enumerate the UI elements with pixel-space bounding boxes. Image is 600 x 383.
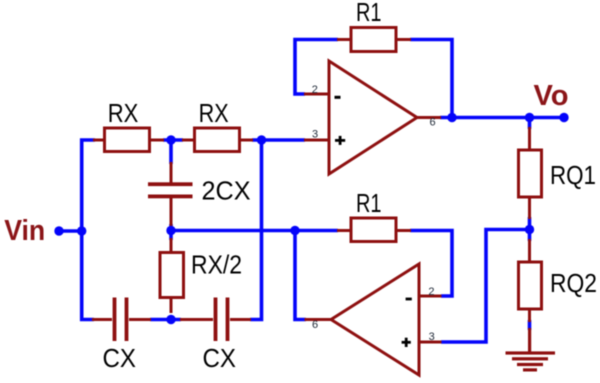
svg-text:3: 3 bbox=[429, 331, 435, 343]
svg-text:3: 3 bbox=[312, 129, 318, 141]
wire RQ1 top lead bbox=[528, 118, 532, 130]
capacitor 2CX leads bbox=[170, 162, 173, 226]
resistor RQ2 leads bbox=[528, 239, 531, 322]
svg-text:CX: CX bbox=[103, 343, 137, 373]
node RX2 output junction bbox=[257, 135, 266, 144]
op-amp U1 plus sign bbox=[335, 136, 345, 145]
op-amp U1 pin 2 stub bbox=[304, 93, 329, 96]
capacitor CX2 leads bbox=[180, 318, 251, 321]
capacitor CX2 bbox=[214, 298, 230, 342]
capacitor 2CX bbox=[148, 182, 193, 198]
svg-text:RX: RX bbox=[108, 98, 139, 128]
wire output row to Vo bbox=[440, 116, 564, 120]
capacitor CX1 bbox=[113, 298, 129, 342]
wire 2CX to RX/2 node bbox=[169, 224, 173, 240]
resistor RQ1 label bbox=[550, 160, 596, 190]
resistor RX1 label bbox=[108, 98, 139, 128]
op-amp U2 pin 3 number bbox=[429, 331, 435, 343]
node Vo junction bbox=[525, 113, 534, 122]
resistor R1 top label bbox=[356, 0, 382, 27]
resistor R1 bottom bbox=[351, 218, 396, 242]
op-amp U1 pin 3 number bbox=[312, 129, 318, 141]
capacitor CX1 label bbox=[103, 343, 137, 373]
resistor R1 bottom leads bbox=[337, 229, 411, 232]
resistor RQ2 bbox=[519, 262, 542, 309]
svg-text:2CX: 2CX bbox=[202, 176, 251, 206]
svg-text:2: 2 bbox=[428, 286, 434, 298]
svg-text:6: 6 bbox=[312, 319, 318, 331]
node RX1-RX2 junction bbox=[166, 135, 175, 144]
op-amp U2 bbox=[331, 264, 419, 375]
svg-text:RQ1: RQ1 bbox=[550, 160, 596, 190]
resistor RX2 label bbox=[199, 98, 229, 128]
wire RQ1-RQ2 junction bbox=[528, 217, 532, 241]
op-amp U1 pin 6 number bbox=[430, 117, 436, 129]
svg-text:R1: R1 bbox=[356, 188, 382, 218]
op-amp U2 pin 3 stub bbox=[419, 341, 442, 344]
resistor RX2 bbox=[195, 128, 240, 152]
node RQ1-RQ2 junction bbox=[525, 225, 534, 234]
svg-text:Vo: Vo bbox=[534, 80, 569, 112]
op-amp U1 minus sign bbox=[335, 96, 341, 99]
op-amp U2 pin 6 number bbox=[312, 319, 318, 331]
resistor RX1 bbox=[105, 128, 150, 152]
wire between RX1 and RX2 bbox=[163, 138, 183, 142]
resistor RX2 leads bbox=[182, 139, 253, 142]
wire RX2 to op-amp pin3 bbox=[252, 138, 305, 142]
wire node to U2 output bbox=[295, 231, 306, 320]
svg-text:RQ2: RQ2 bbox=[550, 268, 597, 298]
resistor RQ2 label bbox=[550, 268, 597, 298]
resistor R1 top bbox=[351, 28, 396, 52]
capacitor 2CX label bbox=[202, 176, 251, 206]
op-amp U2 pin 6 stub bbox=[305, 318, 333, 321]
node Vin junction bbox=[77, 226, 86, 235]
svg-text:6: 6 bbox=[430, 117, 436, 129]
wire left vertical from RX to CX row bbox=[82, 140, 95, 320]
wire right vertical of twin-T bbox=[250, 140, 262, 320]
wire RQ2 to ground segment bbox=[528, 320, 532, 330]
wire U1 feedback right down to output bbox=[410, 40, 452, 118]
wire RQ junction to U2 pin3 bbox=[441, 230, 530, 343]
op-amp U2 pin 2 number bbox=[428, 286, 434, 298]
svg-text:RX: RX bbox=[199, 98, 229, 128]
wire CX row segments bbox=[150, 318, 181, 322]
svg-text:R1: R1 bbox=[356, 0, 382, 27]
op-amp U1 pin 6 stub bbox=[416, 116, 441, 119]
svg-text:CX: CX bbox=[203, 343, 237, 373]
wire U1 pin2 feedback loop left bbox=[295, 40, 338, 95]
op-amp U2 minus sign bbox=[406, 298, 412, 301]
op-amp U2 pin 2 stub bbox=[419, 295, 442, 298]
wire node to 2CX bbox=[169, 140, 173, 164]
op-amp U1 pin 3 stub bbox=[304, 139, 329, 142]
wire U2 feedback right loop bbox=[410, 231, 452, 297]
resistor RQ1 leads bbox=[528, 127, 531, 219]
ground bbox=[506, 328, 556, 372]
node RX/2-CX junction bbox=[166, 315, 175, 324]
label Vin bbox=[4, 215, 45, 247]
node Vo endpoint bbox=[559, 113, 568, 122]
svg-text:RX/2: RX/2 bbox=[191, 250, 242, 280]
label Vo bbox=[534, 80, 569, 112]
wire Vin stub bbox=[59, 229, 82, 233]
resistor R1 bottom label bbox=[356, 188, 382, 218]
node 2CX-RX/2 junction bbox=[166, 226, 175, 235]
resistor RX/2 label bbox=[191, 250, 242, 280]
node U2 output junction bbox=[290, 226, 299, 235]
resistor RX1 leads bbox=[93, 139, 164, 142]
capacitor CX2 label bbox=[203, 343, 237, 373]
wire mid horizontal y=230 bbox=[171, 229, 338, 233]
op-amp U1 bbox=[329, 61, 417, 174]
resistor RX/2 leads bbox=[170, 238, 173, 313]
op-amp U1 pin 2 number bbox=[312, 84, 318, 96]
resistor R1 top leads bbox=[337, 38, 411, 41]
svg-text:Vin: Vin bbox=[4, 215, 45, 247]
resistor RX/2 bbox=[160, 253, 184, 298]
op-amp U2 plus sign bbox=[402, 338, 411, 347]
node Vin endpoint bbox=[54, 226, 63, 235]
svg-text:2: 2 bbox=[312, 84, 318, 96]
node U1 output junction bbox=[447, 113, 456, 122]
capacitor CX1 leads bbox=[92, 318, 151, 321]
resistor RQ1 bbox=[519, 150, 542, 197]
